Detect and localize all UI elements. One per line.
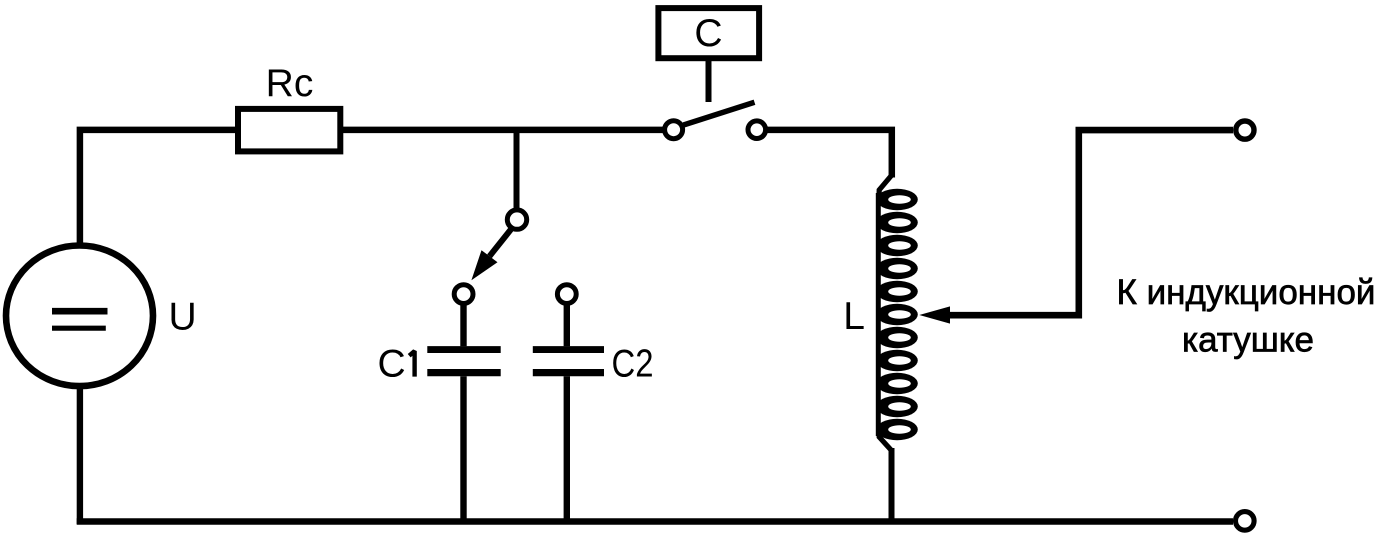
svg-text:катушке: катушке [1182, 321, 1314, 360]
svg-text:Rc: Rc [266, 62, 314, 105]
svg-text:C: C [378, 343, 406, 386]
svg-text:C: C [694, 12, 722, 55]
svg-text:C2: C2 [612, 343, 654, 386]
svg-text:К индукционной: К индукционной [1117, 273, 1376, 312]
svg-text:L: L [843, 295, 865, 338]
svg-text:U: U [169, 296, 197, 339]
